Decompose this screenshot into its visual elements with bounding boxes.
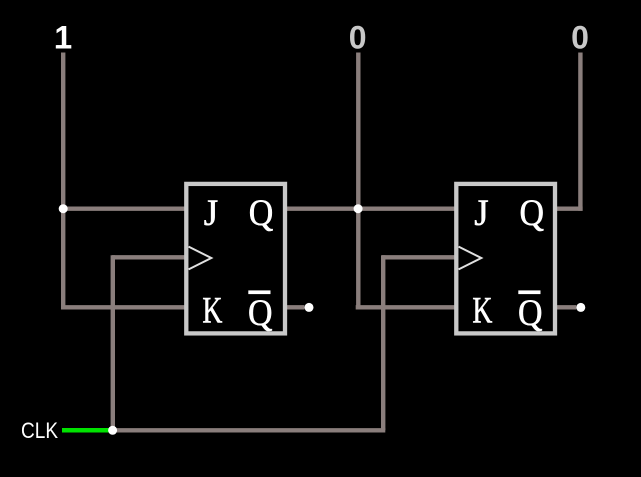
wire: Q1 output to J2 input <box>286 206 457 210</box>
pin dot: Q-bar2 unconnected <box>576 303 585 312</box>
svg-text:Q: Q <box>248 293 273 334</box>
wire: K1 input horizontal <box>61 305 187 309</box>
wire: clock riser to U1 <box>111 255 115 430</box>
wire: clock bus horizontal <box>113 428 386 432</box>
svg-text:Q: Q <box>519 193 544 234</box>
wire: CLK green segment (active clock) <box>62 428 113 433</box>
svg-text:0: 0 <box>349 19 367 55</box>
svg-text:1: 1 <box>54 19 72 55</box>
wire: node B riser to output 0 <box>356 53 360 209</box>
U1 clock triangle <box>189 247 212 270</box>
svg-text:K: K <box>472 291 492 332</box>
JK flip-flop U1 body <box>186 184 285 334</box>
svg-text:0: 0 <box>571 19 589 55</box>
junction: CLK node <box>108 426 117 435</box>
wire: U1 clock input horizontal <box>112 255 187 259</box>
input constant 1 base serif bar <box>56 45 71 48</box>
svg-text:K: K <box>202 291 222 332</box>
wire: node B drop to K2 row <box>356 209 360 310</box>
JK flip-flop U2 body <box>456 184 555 334</box>
wire: Q2 riser to output 0 <box>578 53 582 211</box>
svg-text:J: J <box>474 193 488 234</box>
junction: node A (input 1 to J1) <box>59 204 68 213</box>
U2 Q-bar overline <box>518 290 540 294</box>
wire: clock riser to U2 <box>381 255 385 430</box>
pin dot: Q-bar1 unconnected <box>305 303 314 312</box>
wire: Q-bar2 stub <box>556 305 576 309</box>
wire: J1 input horizontal <box>61 206 187 210</box>
wire: constant-1 vertical drop <box>61 53 65 310</box>
svg-text:CLK: CLK <box>21 418 58 443</box>
U1 Q-bar overline <box>248 290 270 294</box>
junction: node B (Q1 net) <box>354 204 363 213</box>
svg-text:Q: Q <box>249 193 274 234</box>
wire: Q-bar1 stub <box>286 305 305 309</box>
U2 clock triangle <box>459 247 482 270</box>
wire: Q2 output horizontal <box>556 206 583 210</box>
svg-text:Q: Q <box>518 293 543 334</box>
wire: K2 input horizontal <box>356 305 457 309</box>
svg-text:J: J <box>204 193 218 234</box>
wire: U2 clock input horizontal <box>382 255 457 259</box>
